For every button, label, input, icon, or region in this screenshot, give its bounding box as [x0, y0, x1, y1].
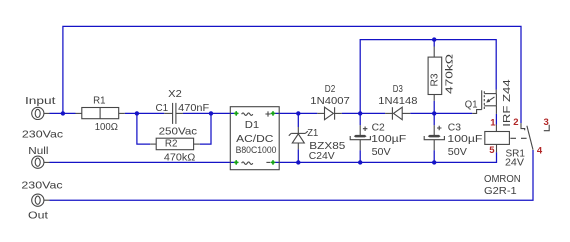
- svg-text:IRF Z44: IRF Z44: [501, 79, 513, 127]
- svg-text:R1: R1: [93, 95, 106, 107]
- svg-text:2: 2: [513, 117, 518, 128]
- svg-text:100Ω: 100Ω: [95, 121, 118, 133]
- svg-text:C1: C1: [156, 102, 169, 114]
- svg-text:100µF: 100µF: [447, 133, 482, 145]
- svg-text:470kΩ: 470kΩ: [164, 151, 196, 163]
- svg-text:R2: R2: [165, 138, 178, 150]
- svg-text:50V: 50V: [372, 146, 391, 158]
- svg-text:C2: C2: [372, 121, 385, 133]
- svg-text:D2: D2: [325, 83, 336, 95]
- svg-text:3: 3: [544, 117, 549, 128]
- svg-text:Null: Null: [28, 145, 48, 157]
- svg-text:230Vac: 230Vac: [22, 129, 63, 141]
- svg-text:G2R-1: G2R-1: [484, 185, 517, 197]
- svg-text:5: 5: [489, 145, 495, 156]
- svg-text:R3: R3: [429, 73, 441, 86]
- svg-text:C24V: C24V: [309, 150, 335, 162]
- svg-text:50V: 50V: [448, 146, 467, 158]
- svg-text:OMRON: OMRON: [484, 173, 521, 185]
- svg-text:D3: D3: [393, 83, 403, 95]
- svg-text:C3: C3: [448, 121, 461, 133]
- svg-text:230Vac: 230Vac: [21, 180, 62, 192]
- svg-text:24V: 24V: [505, 157, 524, 169]
- svg-text:D1: D1: [245, 119, 260, 131]
- svg-text:470nF: 470nF: [178, 102, 209, 114]
- svg-text:Q1: Q1: [465, 99, 478, 111]
- svg-text:Z1: Z1: [307, 127, 318, 139]
- svg-text:1N4007: 1N4007: [310, 95, 350, 107]
- svg-text:470kΩ: 470kΩ: [444, 54, 456, 94]
- svg-text:X2: X2: [168, 88, 182, 100]
- svg-text:1: 1: [490, 118, 496, 129]
- svg-text:Input: Input: [25, 95, 56, 107]
- svg-text:B80C1000: B80C1000: [236, 145, 277, 156]
- svg-text:Out: Out: [28, 209, 48, 221]
- svg-text:250Vac: 250Vac: [159, 125, 198, 137]
- svg-text:1N4148: 1N4148: [378, 95, 417, 107]
- svg-text:100µF: 100µF: [371, 133, 406, 145]
- svg-text:4: 4: [537, 145, 543, 156]
- svg-text:AC/DC: AC/DC: [236, 133, 274, 145]
